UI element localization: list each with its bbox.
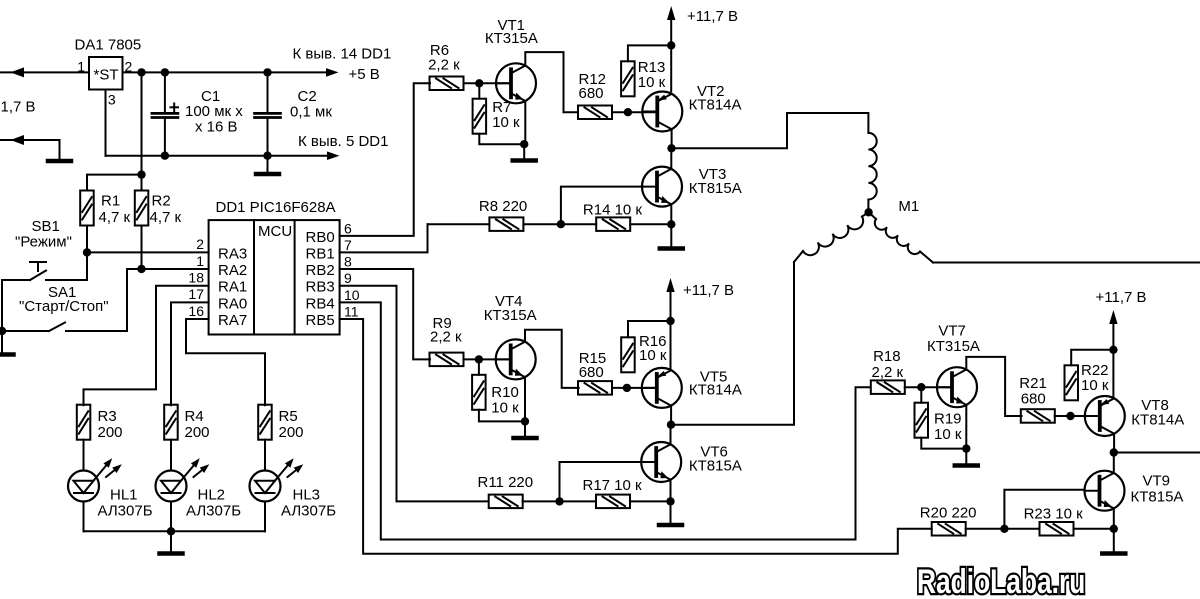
wire R20 right bbox=[966, 528, 1005, 530]
wire VT4 emitter to ground bbox=[524, 421, 526, 435]
wire C2 to ground bbox=[267, 156, 269, 172]
svg-text:АЛ307Б: АЛ307Б bbox=[98, 503, 153, 520]
wire VT4 emitter down bbox=[524, 377, 526, 421]
transistor VT5 КТ814А bbox=[642, 368, 682, 408]
node common C1 bbox=[161, 152, 169, 160]
svg-text:4,7 к: 4,7 к bbox=[99, 209, 131, 226]
wire SA1 to ground bbox=[1, 331, 3, 352]
resistor R21 bbox=[1021, 409, 1055, 423]
wire VT4 collector to R15 bbox=[525, 330, 579, 388]
motor winding A (vertical) bbox=[868, 133, 876, 200]
transistor VT3 КТ815А bbox=[642, 167, 682, 207]
svg-text:R1: R1 bbox=[101, 193, 120, 210]
svg-text:MCU: MCU bbox=[258, 223, 292, 240]
resistor R13 bbox=[621, 61, 635, 96]
wire VT7 collector to R21 bbox=[966, 357, 1021, 416]
wire VT3 emitter down bbox=[670, 204, 672, 224]
transistor VT1 КТ315А bbox=[496, 63, 536, 103]
wire R7 bottom bbox=[479, 134, 524, 145]
IC DD1 PIC16F628A box bbox=[209, 220, 340, 334]
ground VT9 bbox=[1102, 551, 1125, 556]
svg-text:"Старт/Стоп": "Старт/Стоп" bbox=[19, 298, 109, 315]
svg-text:КТ815А: КТ815А bbox=[689, 458, 742, 475]
resistor R11 bbox=[489, 495, 523, 509]
svg-text:M1: M1 bbox=[898, 198, 919, 215]
resistor R8 bbox=[489, 217, 523, 231]
svg-text:7: 7 bbox=[344, 237, 352, 253]
wire R11 right bbox=[523, 500, 560, 502]
ground VT3 bbox=[660, 246, 683, 251]
resistor R2 bbox=[135, 191, 149, 226]
node R11/R17/VT6 base bbox=[555, 497, 563, 505]
svg-text:R3: R3 bbox=[98, 408, 117, 425]
regulator DA1 7805 box bbox=[89, 57, 123, 90]
node +11.7 R22 bbox=[1109, 346, 1117, 354]
wire pin6 RB0 to R6 bbox=[340, 83, 430, 236]
node VT6 emitter bbox=[666, 497, 674, 505]
svg-text:0,1 мк: 0,1 мк bbox=[290, 104, 332, 121]
wire R14 leads bbox=[561, 223, 596, 225]
wire VT3 base row bbox=[561, 187, 642, 225]
svg-text:RA2: RA2 bbox=[218, 262, 247, 279]
node R6/R7/VT1 bbox=[475, 79, 483, 87]
wire winding C to right edge bbox=[933, 262, 1200, 264]
node SA1 left bbox=[0, 327, 6, 335]
svg-text:HL3: HL3 bbox=[293, 487, 321, 504]
motor winding C (right) bbox=[869, 212, 876, 219]
wire RA2 row to MCU pin 1 bbox=[127, 268, 209, 270]
svg-text:680: 680 bbox=[579, 85, 604, 102]
resistor R19 bbox=[915, 403, 929, 438]
wire VT1 emitter down bbox=[524, 101, 526, 144]
wire pin11 RB5 to R20 bbox=[340, 319, 932, 554]
transistor VT2 КТ814А bbox=[642, 92, 682, 132]
svg-text:R14 10 к: R14 10 к bbox=[583, 202, 643, 219]
wire HL2 down bbox=[170, 502, 172, 532]
node R12/R13/VT2 base bbox=[624, 108, 632, 116]
svg-text:КТ315А: КТ315А bbox=[484, 307, 537, 324]
svg-text:2: 2 bbox=[196, 236, 204, 252]
node common C2 bbox=[263, 152, 271, 160]
transistor VT6 КТ815А bbox=[641, 442, 681, 482]
svg-text:200: 200 bbox=[279, 424, 304, 441]
node R21/R22/VT8 base bbox=[1066, 412, 1074, 420]
wire R9 to VT4 base bbox=[464, 358, 511, 360]
resistor R18 bbox=[871, 380, 905, 394]
svg-text:VT9: VT9 bbox=[1143, 473, 1171, 490]
wire R2 bottom to RA2 row bbox=[141, 226, 143, 269]
svg-text:КТ815А: КТ815А bbox=[689, 180, 742, 197]
svg-text:R10: R10 bbox=[491, 384, 519, 401]
wire pin8 RB2 to R9 bbox=[340, 269, 430, 359]
wire VT6 base row bbox=[560, 462, 642, 501]
svg-text:HL2: HL2 bbox=[198, 487, 226, 504]
wire R19 bottom bbox=[921, 438, 966, 449]
svg-text:+11,7 В: +11,7 В bbox=[1096, 289, 1147, 306]
resistor R22 bbox=[1065, 365, 1079, 400]
resistor R23 bbox=[1040, 522, 1074, 536]
wire LED common to ground bbox=[170, 531, 172, 551]
svg-text:RA0: RA0 bbox=[218, 295, 247, 312]
wire common rail (К выв. 5 DD1) bbox=[106, 155, 329, 157]
node rail C1 bbox=[161, 68, 169, 76]
resistor R6 bbox=[430, 77, 464, 91]
wire DA1 pin3 down bbox=[105, 90, 107, 156]
resistor R3 bbox=[77, 405, 91, 440]
wire VT7 emitter to ground bbox=[965, 449, 967, 463]
motor winding B (left) bbox=[862, 212, 869, 216]
wire R8 left bbox=[428, 223, 490, 225]
svg-text:КТ315А: КТ315А bbox=[485, 30, 538, 47]
svg-text:RA1: RA1 bbox=[218, 279, 247, 296]
wire RA3 row to MCU pin 2 bbox=[87, 251, 209, 253]
wire VT7 emitter down bbox=[965, 405, 967, 449]
wire VT1 collector to R12 bbox=[525, 52, 577, 112]
node VT1 emitter bbox=[520, 140, 528, 148]
wire R12 to VT2 base bbox=[612, 111, 657, 113]
wire VT2 collector down bbox=[671, 129, 673, 148]
wire R15 to VT5 base bbox=[612, 387, 657, 389]
svg-text:10: 10 bbox=[344, 287, 360, 303]
svg-text:17: 17 bbox=[188, 286, 204, 302]
svg-text:9: 9 bbox=[344, 270, 352, 286]
wire pin7 RB1 to R8 row bbox=[340, 224, 428, 252]
svg-text:10 к: 10 к bbox=[1081, 377, 1109, 394]
transistor VT8 КТ814А bbox=[1085, 396, 1125, 436]
svg-text:C2: C2 bbox=[298, 88, 317, 105]
svg-text:1: 1 bbox=[196, 253, 204, 269]
wire VT5 collector down bbox=[670, 406, 672, 425]
wire VT9 collector up bbox=[1113, 453, 1115, 474]
watermark RadioLaba.ru bbox=[917, 563, 1085, 599]
node R2 / RA2 bbox=[137, 265, 145, 273]
wire pin10 RB4 to R18 bbox=[340, 302, 870, 539]
ground VT6 bbox=[659, 523, 682, 528]
power +11,7 В arrow VT2 bbox=[670, 18, 672, 91]
node R1 / SB1 / RA3 bbox=[83, 248, 91, 256]
ground C2 bbox=[256, 172, 279, 177]
resistor R4 bbox=[164, 405, 178, 440]
svg-text:10 к: 10 к bbox=[492, 114, 520, 131]
node R15/R16/VT5 base bbox=[623, 384, 631, 392]
plus sign C1 bbox=[171, 106, 179, 108]
wire LED common rail bbox=[84, 530, 266, 532]
wire junction to right edge bbox=[1114, 452, 1200, 454]
node +11.7 R13 bbox=[667, 41, 675, 49]
svg-text:К выв. 14 DD1: К выв. 14 DD1 bbox=[293, 46, 392, 63]
resistor R10 bbox=[472, 375, 486, 410]
wire R19 top bbox=[920, 387, 922, 403]
wire R8 right bbox=[523, 223, 561, 225]
svg-text:100 мк х: 100 мк х bbox=[185, 103, 243, 120]
svg-text:DD1 PIC16F628A: DD1 PIC16F628A bbox=[216, 199, 336, 216]
wire VT8 collector down bbox=[1113, 434, 1115, 453]
svg-text:+11,7 В: +11,7 В bbox=[683, 282, 734, 299]
svg-text:200: 200 bbox=[98, 424, 123, 441]
wire junction to motor winding A bbox=[672, 113, 869, 148]
svg-text:АЛ307Б: АЛ307Б bbox=[281, 503, 336, 520]
ground VT7 bbox=[955, 463, 978, 468]
transistor VT7 КТ315А bbox=[937, 367, 977, 407]
power +11,7 В arrow VT8 bbox=[1112, 322, 1114, 397]
node M1 star point bbox=[864, 208, 872, 216]
svg-text:*ST: *ST bbox=[94, 67, 119, 84]
svg-text:КТ814А: КТ814А bbox=[689, 97, 742, 114]
svg-text:R4: R4 bbox=[185, 408, 204, 425]
resistor R15 bbox=[578, 381, 612, 395]
resistor R7 bbox=[473, 99, 487, 134]
resistor R9 bbox=[430, 353, 464, 367]
svg-text:RB1: RB1 bbox=[306, 245, 335, 262]
ground SA1 bbox=[0, 352, 14, 357]
wire R1 bottom to RA3 row bbox=[86, 226, 88, 253]
node +11.7 R16 bbox=[666, 317, 674, 325]
LED HL3 bbox=[250, 471, 281, 502]
svg-text:680: 680 bbox=[1021, 391, 1046, 408]
svg-text:RadioLaba.ru: RadioLaba.ru bbox=[917, 563, 1085, 599]
wire +5V rail bbox=[123, 71, 328, 73]
capacitor C1 bbox=[152, 112, 178, 115]
svg-text:11: 11 bbox=[344, 304, 359, 320]
svg-text:4,7 к: 4,7 к bbox=[150, 209, 182, 226]
wire pin18 RA1 route bbox=[84, 286, 209, 406]
ground VT1 bbox=[513, 158, 536, 163]
wire R18 to VT7 base bbox=[905, 386, 952, 388]
resistor R14 bbox=[596, 217, 630, 231]
transistor VT4 КТ315А bbox=[496, 339, 536, 379]
svg-text:2,2 к: 2,2 к bbox=[428, 56, 460, 73]
wire VT3 collector up bbox=[670, 148, 672, 169]
wire VT9 emitter to ground bbox=[1113, 529, 1115, 551]
transistor VT9 КТ815А bbox=[1085, 471, 1125, 511]
svg-text:3: 3 bbox=[108, 92, 116, 108]
svg-text:АЛ307Б: АЛ307Б bbox=[186, 503, 241, 520]
resistor R12 bbox=[578, 106, 612, 120]
wire R13 top to +11.7 bbox=[628, 45, 671, 61]
svg-text:HL1: HL1 bbox=[110, 487, 138, 504]
node R9/R10/VT4 bbox=[475, 355, 483, 363]
svg-text:6: 6 bbox=[344, 220, 352, 236]
svg-text:2,2 к: 2,2 к bbox=[430, 329, 462, 346]
node VT4 emitter bbox=[521, 417, 529, 425]
wire R4 to HL2 bbox=[170, 440, 172, 471]
svg-text:R17 10 к: R17 10 к bbox=[583, 477, 643, 494]
resistor R20 bbox=[932, 522, 966, 536]
ground input bbox=[48, 159, 71, 164]
wire VT1 emitter to ground bbox=[523, 144, 525, 158]
svg-text:"Режим": "Режим" bbox=[15, 234, 72, 251]
node VT7 emitter bbox=[962, 444, 970, 452]
LED HL2 bbox=[156, 471, 187, 502]
svg-text:К выв. 5 DD1: К выв. 5 DD1 bbox=[298, 133, 388, 150]
wire left vertical SB1/SA1 bbox=[1, 280, 3, 331]
wire pin9 RB3 to R11 bbox=[340, 286, 488, 502]
svg-text:8: 8 bbox=[344, 254, 352, 270]
wire R6 to VT1 base bbox=[464, 82, 512, 84]
LED HL1 bbox=[68, 471, 99, 502]
node R8/R14/VT3 base bbox=[557, 220, 565, 228]
svg-text:КТ814А: КТ814А bbox=[1131, 411, 1184, 428]
ground VT4 bbox=[514, 436, 537, 441]
svg-text:+11,7 В: +11,7 В bbox=[687, 8, 738, 25]
node VT8/VT9 junction bbox=[1110, 448, 1118, 456]
svg-text:RA3: RA3 bbox=[218, 245, 247, 262]
wire R22 top to +11.7 bbox=[1071, 350, 1113, 366]
svg-text:1,7 В: 1,7 В bbox=[1, 99, 36, 116]
resistor R5 bbox=[258, 405, 272, 440]
capacitor C2 bbox=[255, 112, 281, 115]
wire R5 to HL3 bbox=[264, 440, 266, 471]
resistor R16 bbox=[621, 337, 635, 372]
svg-text:16: 16 bbox=[188, 303, 204, 319]
svg-text:2,2 к: 2,2 к bbox=[872, 364, 904, 381]
wire R7 top bbox=[478, 83, 480, 98]
svg-text:RB3: RB3 bbox=[306, 279, 335, 296]
svg-text:R23 10 к: R23 10 к bbox=[1024, 506, 1084, 523]
switch SA1 Старт/Стоп bbox=[2, 330, 49, 332]
wire R1 top branch bbox=[87, 175, 142, 191]
wire HL3 down bbox=[264, 502, 266, 532]
svg-text:10 к: 10 к bbox=[638, 74, 666, 91]
svg-text:10 к: 10 к bbox=[934, 426, 962, 443]
svg-text:10 к: 10 к bbox=[639, 347, 667, 364]
svg-text:КТ814А: КТ814А bbox=[689, 382, 742, 399]
svg-text:VT7: VT7 bbox=[938, 323, 966, 340]
wire +5 branch down to R1/R2 bbox=[141, 72, 143, 190]
node R20/R23/VT9 base bbox=[1000, 525, 1008, 533]
svg-text:R19: R19 bbox=[934, 411, 962, 428]
svg-text:R21: R21 bbox=[1019, 375, 1047, 392]
ground LEDs bbox=[160, 551, 183, 556]
svg-text:RB2: RB2 bbox=[306, 262, 335, 279]
svg-text:18: 18 bbox=[188, 270, 204, 286]
svg-text:1: 1 bbox=[77, 59, 85, 75]
svg-text:R8 220: R8 220 bbox=[479, 198, 527, 215]
wire R10 top bbox=[478, 359, 480, 374]
wire input minus to ground bbox=[0, 140, 60, 158]
svg-text:R18: R18 bbox=[873, 348, 901, 365]
wire pin16 RA7 route bbox=[186, 319, 265, 405]
resistor R17 bbox=[596, 495, 630, 509]
wire VT9 emitter down bbox=[1113, 508, 1115, 528]
svg-text:SB1: SB1 bbox=[32, 218, 60, 235]
svg-text:200: 200 bbox=[185, 424, 210, 441]
node VT9 emitter bbox=[1110, 525, 1118, 533]
node VT5/VT6 junction bbox=[667, 421, 675, 429]
node R18/R19/VT7 bbox=[917, 383, 925, 391]
wire R10 bottom bbox=[479, 410, 525, 422]
svg-text:х 16 В: х 16 В bbox=[195, 119, 238, 136]
wire R21 to VT8 base bbox=[1055, 415, 1100, 417]
node rail C2 bbox=[263, 68, 271, 76]
svg-text:RB0: RB0 bbox=[306, 229, 335, 246]
svg-text:RA7: RA7 bbox=[218, 312, 247, 329]
wire VT6 collector up bbox=[670, 425, 672, 445]
resistor R1 bbox=[80, 191, 94, 226]
svg-text:R20 220: R20 220 bbox=[920, 505, 977, 522]
svg-text:R2: R2 bbox=[152, 193, 171, 210]
node rail R1R2 branch bbox=[137, 68, 145, 76]
wire VT3 emitter to ground bbox=[670, 224, 672, 246]
wire R23 leads bbox=[1004, 528, 1039, 530]
wire input +11.7V to DA1 pin 1 bbox=[0, 71, 89, 73]
svg-text:КТ315А: КТ315А bbox=[927, 338, 980, 355]
power +11,7 В arrow VT5 bbox=[670, 290, 672, 368]
wire pin17 RA0 route bbox=[171, 302, 209, 405]
svg-text:КТ815А: КТ815А bbox=[1131, 489, 1184, 506]
svg-text:10 к: 10 к bbox=[491, 400, 519, 417]
wire HL1 down bbox=[83, 502, 85, 532]
svg-text:DA1 7805: DA1 7805 bbox=[75, 37, 142, 54]
wire R16 top to +11.7 bbox=[628, 321, 671, 337]
wire VT6 emitter to ground bbox=[670, 501, 672, 522]
switch SB1 Режим bbox=[2, 279, 30, 281]
svg-text:680: 680 bbox=[579, 364, 604, 381]
wire VT6 emitter down bbox=[670, 480, 672, 502]
svg-text:RB5: RB5 bbox=[306, 312, 335, 329]
node VT3 emitter bbox=[667, 220, 675, 228]
node LED common bbox=[167, 527, 175, 535]
svg-text:R5: R5 bbox=[279, 408, 298, 425]
wire VT9 base row bbox=[1004, 490, 1084, 529]
svg-text:R11 220: R11 220 bbox=[478, 474, 534, 491]
node R1/R2 top bbox=[137, 170, 145, 178]
wire R3 to HL1 bbox=[83, 440, 85, 471]
node VT2/VT3 junction bbox=[667, 144, 675, 152]
svg-text:RB4: RB4 bbox=[306, 295, 335, 312]
wire junction to motor winding B bbox=[671, 262, 794, 425]
svg-text:+5 В: +5 В bbox=[349, 66, 380, 83]
wire R17 leads bbox=[560, 500, 597, 502]
